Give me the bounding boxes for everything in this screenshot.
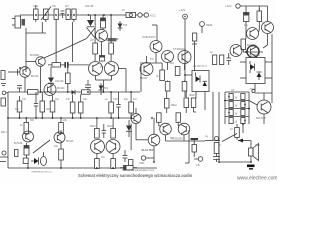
wire lower input rail <box>26 32 46 34</box>
resistor R44 <box>157 113 162 126</box>
connector left edge B <box>1 98 6 106</box>
svg-text:4k7: 4k7 <box>133 98 138 101</box>
svg-text:2k2: 2k2 <box>170 62 175 65</box>
resistor R38 small <box>129 160 133 166</box>
resistor R21 horizontal <box>82 90 91 94</box>
svg-text:+12V: +12V <box>179 8 186 12</box>
label Q1 <box>108 38 117 41</box>
wire left stub <box>188 130 190 163</box>
opto-coupler U2 box <box>192 65 209 92</box>
wire opto U2 leads <box>195 92 197 99</box>
transistor Tr4 <box>150 41 162 53</box>
resistor R36 <box>95 154 100 169</box>
resistor R22 <box>17 96 22 118</box>
node input ground <box>2 91 8 95</box>
resistor R45 <box>176 113 181 126</box>
wire bottom right rail <box>219 161 251 163</box>
resistor R20 horizontal <box>28 90 39 95</box>
diode D7 <box>48 67 54 92</box>
zener D4 <box>99 83 104 95</box>
varistor RV1 <box>41 7 51 23</box>
capacitor C17 <box>61 62 89 68</box>
resistor R39 <box>192 145 197 158</box>
svg-text:BD140: BD140 <box>57 87 65 90</box>
wire drop b <box>55 22 57 63</box>
transistor T1 <box>26 57 45 92</box>
zener D3 <box>192 33 197 71</box>
resistor R10 <box>257 8 262 24</box>
node +12V top right <box>225 4 268 22</box>
transistor Tr3 <box>105 62 119 76</box>
transistor Q10 <box>262 22 274 34</box>
zener D2 <box>118 21 123 31</box>
svg-text:0R22: 0R22 <box>107 125 113 128</box>
transistor Q15 <box>131 108 148 140</box>
capacitor C9 <box>34 92 38 118</box>
svg-text:U2 CNY17-3: U2 CNY17-3 <box>193 65 207 68</box>
capacitor C1 <box>34 5 39 22</box>
wire diagonal crossing <box>87 28 96 39</box>
opto-coupler U1 box <box>240 54 272 91</box>
wire Tr9 emitter <box>153 146 155 162</box>
svg-text:BC546b: BC546b <box>14 142 23 145</box>
resistor R30 <box>59 118 64 134</box>
svg-text:100n: 100n <box>33 5 39 8</box>
wire cluster right <box>245 28 247 39</box>
svg-text:www.elecfree.com: www.elecfree.com <box>237 176 277 182</box>
transistor Q1 <box>96 30 108 42</box>
resistor R14 horizontal <box>48 63 61 67</box>
svg-text:47u: 47u <box>244 24 249 27</box>
diode D1 <box>87 15 94 27</box>
diode D6 <box>126 120 132 137</box>
transistor Tr11 <box>178 123 190 135</box>
transistor Tr8a <box>91 140 105 154</box>
wire Tr7 emitter drop <box>140 64 142 92</box>
svg-text:+12V: +12V <box>225 4 232 8</box>
resistor R23 <box>40 92 45 118</box>
wire left vertical <box>7 92 9 168</box>
terminal blob <box>247 165 255 170</box>
transistor T3 <box>44 84 56 96</box>
svg-text:Tr9 BD280: Tr9 BD280 <box>171 137 183 140</box>
wire emitters <box>95 76 97 81</box>
resistor R33 <box>235 128 240 141</box>
node REM <box>200 22 213 33</box>
svg-text:10u: 10u <box>54 145 59 148</box>
transistor Tr9 <box>148 118 160 146</box>
svg-text:SUB ASSY: SUB ASSY <box>142 35 156 39</box>
transistor Tr7 big <box>140 63 153 76</box>
capacitor C6 <box>100 56 105 62</box>
capacitor C11 <box>102 124 106 138</box>
resistor R43 <box>191 98 196 112</box>
resistor R41 <box>165 91 170 113</box>
resistor R13 <box>220 55 224 65</box>
resistor R31 <box>95 118 100 138</box>
svg-text:ACC: ACC <box>150 14 156 18</box>
svg-text:0R22: 0R22 <box>90 125 96 128</box>
svg-text:4k7: 4k7 <box>90 39 95 42</box>
resistor R32 <box>111 118 116 138</box>
transistor Tr5 <box>162 51 174 63</box>
speaker LS1 <box>249 144 259 161</box>
wire bus mid1 <box>8 91 140 93</box>
resistor R27 <box>109 92 114 118</box>
resistor R3 <box>66 9 70 20</box>
svg-text:BC546B: BC546B <box>30 54 39 57</box>
svg-text:560: 560 <box>30 119 35 122</box>
capacitor C5 <box>227 53 232 65</box>
wire speaker bottom <box>250 156 252 162</box>
wire T4 bottom <box>27 164 29 169</box>
resistor R5 <box>93 15 98 61</box>
resistor R25 <box>70 95 75 119</box>
wire bus mid2 <box>8 117 131 119</box>
capacitor C16 <box>213 157 220 163</box>
wire Tr4 collector <box>152 24 157 26</box>
resistor R12 <box>213 55 217 65</box>
svg-text:R: R <box>219 144 221 147</box>
wire drop c <box>72 22 74 62</box>
node output circle <box>194 157 203 167</box>
node GND circle <box>139 156 154 165</box>
capacitor C7 <box>85 80 91 92</box>
svg-text:4k7: 4k7 <box>65 5 70 8</box>
capacitor C18 small <box>15 150 19 157</box>
svg-text:0R22: 0R22 <box>171 104 177 107</box>
transistor Q14 power <box>249 89 272 114</box>
resistor R26 <box>78 94 83 118</box>
small value labels <box>15 5 233 148</box>
wire diagonal long <box>44 39 87 59</box>
transistor Tr6 <box>178 51 191 64</box>
resistor R2 <box>54 9 58 22</box>
transistor Tr2 <box>89 62 103 76</box>
transistor Q12 <box>230 45 242 57</box>
node +12V mid <box>179 8 187 19</box>
svg-text:4k7: 4k7 <box>106 39 111 42</box>
wire top rail <box>20 14 128 16</box>
resistor R28 <box>129 92 134 118</box>
resistor R18 <box>165 81 170 92</box>
resistor R35 <box>59 143 64 168</box>
battery node circle <box>138 13 142 17</box>
wire main vertical feed <box>184 19 186 97</box>
capacitor C3 electrolytic <box>101 15 106 30</box>
resistor R19 <box>182 81 187 92</box>
svg-text:TV, 4 W TB wzmacniacz mocy: TV, 4 W TB wzmacniacz mocy <box>122 169 155 172</box>
svg-text:GLS: GLS <box>255 144 260 147</box>
resistor R15 <box>66 68 71 92</box>
switch SW1 <box>205 134 251 143</box>
capacitor C8 <box>17 86 22 93</box>
svg-text:4N25: 4N25 <box>250 88 256 91</box>
wire Q1 emitter <box>101 42 103 56</box>
svg-text:1k2: 1k2 <box>55 98 60 101</box>
resistor R11 <box>241 39 246 52</box>
transistor T5 <box>54 132 65 143</box>
resistor R4 <box>72 9 76 22</box>
wire input vertical <box>25 28 27 72</box>
svg-text:2k2: 2k2 <box>83 98 88 101</box>
svg-text:Schemat elektryczny samochodow: Schemat elektryczny samochodowego wzmacn… <box>78 173 193 178</box>
svg-text:GND: GND <box>139 162 145 165</box>
svg-text:100n: 100n <box>113 98 119 101</box>
transistor T1a <box>8 67 30 92</box>
resistor R29 <box>24 118 29 134</box>
capacitor C10 <box>116 92 120 118</box>
wire right bus verticals <box>218 92 220 162</box>
capacitor C4 electrolytic <box>244 13 249 29</box>
wire right vertical <box>271 34 273 103</box>
wire pair emitters <box>165 135 167 141</box>
svg-text:22u: 22u <box>124 98 129 101</box>
capacitor C14 electrolytic horizontal <box>120 166 137 171</box>
ladder network block <box>225 89 249 127</box>
resistor R16 <box>160 63 165 81</box>
resistor R17 <box>175 67 180 76</box>
wire bottom rail <box>8 167 157 169</box>
wire center cluster <box>155 53 157 64</box>
diode D5 small <box>72 90 76 95</box>
wire diagonal base <box>33 140 50 153</box>
resistor R40 <box>214 137 219 157</box>
node ACC <box>144 13 148 17</box>
svg-text:U1 CNY17: U1 CNY17 <box>249 54 261 57</box>
svg-text:5V1: 5V1 <box>104 87 109 90</box>
resistor R34 small <box>23 158 28 164</box>
capacitor C12 electrolytic <box>24 143 29 158</box>
svg-text:2k2: 2k2 <box>46 108 51 111</box>
capacitor C13 <box>123 150 128 162</box>
transistor Tr10 <box>160 123 172 135</box>
extra value labels <box>22 22 265 147</box>
wire drop a <box>41 22 43 33</box>
transistor Q11 <box>247 28 259 40</box>
transistor T4 <box>23 131 34 142</box>
svg-text:WE 1: WE 1 <box>1 131 8 134</box>
wire diagonal from D1 <box>87 28 96 39</box>
svg-text:BLEJ-802: BLEJ-802 <box>142 148 154 152</box>
svg-text:5V6: 5V6 <box>123 24 128 27</box>
svg-text:BD140: BD140 <box>31 75 39 78</box>
svg-text:REM: REM <box>206 23 213 27</box>
wire mid verticals <box>130 113 132 118</box>
capacitor C2 <box>61 11 65 18</box>
connector left edge A <box>1 71 6 86</box>
svg-text:BC546: BC546 <box>66 140 74 143</box>
wire to speaker <box>250 141 252 149</box>
transistor Q13 <box>247 46 259 58</box>
resistor R42 <box>184 91 189 113</box>
LED pair opto <box>31 152 47 166</box>
svg-text:1N4148: 1N4148 <box>85 5 94 8</box>
svg-text:1N4148: 1N4148 <box>55 80 64 83</box>
wire left stub bottom <box>0 156 8 158</box>
capacitor C15 bold plate <box>191 139 199 145</box>
svg-text:C3+: C3+ <box>196 164 201 167</box>
svg-text:0R22: 0R22 <box>189 94 195 97</box>
fuse F1 <box>126 13 136 18</box>
resistor R24 <box>50 96 55 119</box>
svg-text:t REWERS/LIGHT au: t REWERS/LIGHT au <box>31 171 53 174</box>
svg-text:MJ11015: MJ11015 <box>256 117 266 120</box>
resistor R6 <box>109 15 114 61</box>
input jack J1 <box>12 16 25 28</box>
resistor R37 <box>111 154 116 169</box>
transistor Tr8b <box>106 140 120 154</box>
